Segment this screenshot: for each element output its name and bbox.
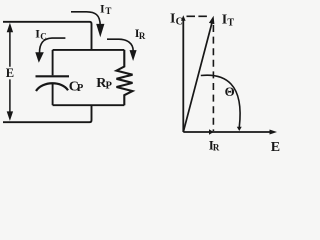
svg-text:R: R: [213, 143, 220, 152]
svg-text:Θ: Θ: [225, 84, 235, 99]
svg-text:T: T: [227, 18, 234, 29]
svg-text:I: I: [222, 13, 227, 28]
svg-text:R: R: [139, 31, 146, 41]
svg-text:P: P: [77, 83, 84, 94]
svg-text:E: E: [271, 140, 280, 152]
svg-text:P: P: [106, 81, 113, 92]
svg-text:C: C: [40, 31, 47, 41]
svg-text:E: E: [6, 66, 14, 80]
svg-text:C: C: [176, 17, 183, 28]
svg-text:T: T: [105, 6, 111, 16]
svg-text:I: I: [100, 2, 105, 16]
